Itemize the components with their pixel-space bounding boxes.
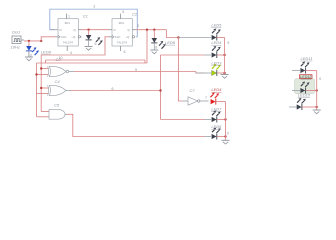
wire feeder vertical A — [40, 55, 42, 112]
wire LED2 to ground — [88, 40, 90, 47]
svg-text:6: 6 — [112, 87, 114, 91]
svg-text:0: 0 — [319, 77, 321, 81]
wire LED4 row2 feed — [161, 54, 205, 56]
gate C3 XNOR — [48, 66, 74, 76]
wire jog up to FF1 CLK — [41, 37, 55, 41]
ground under LED2 — [85, 47, 93, 51]
wire LED7 out — [217, 119, 226, 121]
wire C5 output to LED6 row — [67, 114, 205, 136]
svg-text:6: 6 — [124, 50, 126, 54]
wire LED4 row2 out — [217, 54, 225, 56]
wire net 10 horizontal — [46, 59, 146, 61]
wire C3 input top — [41, 68, 48, 70]
ground rail0 — [222, 140, 230, 144]
wire LED7 feed — [161, 119, 205, 121]
flip-flop C2 — [109, 14, 136, 51]
svg-text:~Q: ~Q — [71, 35, 76, 39]
LED LED11 (floating top) — [292, 62, 310, 74]
wire LED5 stub — [178, 37, 211, 39]
node dot rail0 LED6 — [224, 135, 226, 137]
LED LED12 (floating selected) — [292, 82, 310, 94]
wire LED3 grey stub — [196, 72, 211, 74]
svg-text:LED9: LED9 — [41, 49, 52, 54]
ground floating rail — [313, 110, 321, 114]
wire C3 input bottom — [37, 74, 49, 76]
inverter C7 — [188, 97, 209, 105]
LED LED2 (grey, under Q1) — [86, 35, 103, 45]
svg-text:C4: C4 — [55, 79, 61, 84]
wire LED10 out — [302, 106, 317, 108]
LED LED9 (blue) — [26, 46, 39, 55]
wire blue feedback ~Q2 to D1 — [50, 9, 138, 37]
svg-text:4: 4 — [70, 51, 72, 55]
LED LED7 — [212, 111, 221, 123]
svg-text:CLK: CLK — [61, 35, 67, 39]
wire feeder vertical B — [36, 63, 38, 117]
svg-text:3: 3 — [93, 5, 95, 9]
wire LED6 out — [217, 136, 226, 138]
wire Q2 corner to LED5 row — [166, 30, 178, 38]
svg-text:2: 2 — [137, 24, 139, 28]
ground rail9 — [221, 75, 229, 79]
svg-text:3D1: 3D1 — [65, 21, 71, 25]
node dot rail9 row3 — [223, 72, 225, 74]
ground under LED8 — [150, 50, 158, 54]
LED LED4 (red lit) — [210, 93, 219, 105]
svg-text:LED7: LED7 — [211, 107, 222, 112]
wire LED7 grey stub — [205, 119, 212, 121]
svg-text:9: 9 — [227, 41, 229, 45]
svg-text:C7: C7 — [190, 88, 196, 93]
flip-flop C1 — [58, 14, 82, 51]
gate C5 AND — [49, 109, 67, 119]
wire Q1 LED drop — [88, 30, 90, 35]
svg-text:5: 5 — [135, 68, 137, 72]
node junction Q1 — [87, 29, 89, 31]
ground under LED9 — [25, 57, 33, 61]
node dot rail9 row2 — [223, 54, 225, 56]
svg-text:DG1: DG1 — [12, 30, 20, 35]
wire C3 output net 5 — [74, 72, 205, 74]
svg-text:3D2: 3D2 — [119, 21, 125, 25]
svg-text:7: 7 — [205, 96, 207, 100]
svg-text:LED12: LED12 — [300, 75, 311, 79]
clock source DG1 — [12, 36, 24, 44]
node dot LED12 rail — [316, 89, 318, 91]
wire horizontal y63 — [37, 62, 148, 64]
node junction dot feeder tap — [40, 40, 42, 42]
wire floating rail — [316, 71, 318, 111]
wire FF2 CLK feed — [41, 37, 109, 55]
node dot C4 top — [40, 87, 42, 89]
LED LED5 — [212, 29, 221, 41]
wire C4 input bottom — [37, 93, 49, 95]
svg-text:LED8: LED8 — [165, 40, 176, 45]
LED LED4 row2 — [212, 46, 221, 58]
svg-text:C1: C1 — [83, 14, 88, 19]
svg-text:0: 0 — [227, 131, 229, 135]
svg-text:LED5: LED5 — [211, 23, 222, 28]
svg-text:LED4: LED4 — [211, 40, 222, 45]
node dot Q2 a — [146, 29, 148, 31]
wire LED8 drop — [153, 30, 155, 38]
wire Q1 to D2 — [82, 29, 110, 31]
svg-text:74LS74: 74LS74 — [63, 41, 74, 45]
svg-text:~Q: ~Q — [125, 35, 130, 39]
svg-text:CLK: CLK — [115, 35, 121, 39]
node dot Q2 b — [153, 29, 155, 31]
label LED12 selected box — [300, 75, 313, 79]
svg-text:C5: C5 — [54, 103, 60, 108]
wire LED9 to ground — [28, 51, 30, 57]
wire LED3 out — [217, 72, 225, 74]
wire cathode rail net 0 — [225, 102, 227, 141]
wire C4 input top — [41, 87, 48, 89]
wire clock horizontal — [24, 40, 41, 42]
wire staircase joins — [46, 60, 146, 63]
svg-text:LED10: LED10 — [298, 92, 311, 97]
wire LED12 out — [306, 90, 317, 92]
svg-text:LED11: LED11 — [301, 56, 313, 61]
wire C4 output net 6 — [71, 90, 161, 92]
svg-text:6: 6 — [95, 42, 97, 46]
LED LED8 (grey, under Q2) — [151, 38, 166, 49]
wire Q2 drop to y63 — [146, 30, 148, 63]
node dot C3 top — [40, 67, 42, 69]
svg-text:LED4: LED4 — [211, 87, 222, 92]
svg-text:1: 1 — [68, 15, 70, 19]
wire C5 input bottom — [37, 116, 50, 118]
wire LED4 row2 grey stub — [205, 54, 212, 56]
wire inverter feed vertical — [178, 38, 182, 102]
wire LED4 out — [216, 101, 226, 103]
svg-text:5: 5 — [122, 10, 124, 14]
node dot C4 join — [159, 89, 161, 91]
wire LED11 out — [306, 70, 317, 72]
svg-text:C3: C3 — [56, 57, 62, 62]
wire C5 input top — [41, 111, 49, 113]
wire LED8 to ground — [153, 43, 155, 50]
node dot rail0 LED7 — [224, 118, 226, 120]
wire LED9 drop — [28, 41, 30, 46]
svg-text:10Hz: 10Hz — [11, 45, 20, 50]
node junction dot LED9 tap — [28, 40, 30, 42]
svg-text:LED3: LED3 — [211, 61, 222, 66]
LED LED6 — [212, 128, 221, 140]
svg-text:8: 8 — [155, 45, 157, 49]
LED LED3 (yellow lit) — [212, 64, 221, 76]
green selection panel — [295, 79, 315, 94]
wire cathode rail net 9 — [224, 38, 226, 75]
node dot LED5 feed — [177, 36, 179, 38]
gate C4 XOR — [48, 85, 71, 95]
wire C4 vertical to LED7 — [160, 55, 162, 120]
wire LED6 grey stub — [205, 136, 212, 138]
wire Q2 row — [136, 29, 167, 31]
wire LED5 out — [217, 37, 225, 39]
svg-text:74LS74: 74LS74 — [117, 41, 128, 45]
wire D1 grey stub — [50, 29, 58, 31]
svg-text:LED6: LED6 — [211, 124, 222, 129]
LED LED10 (floating bottom) — [289, 98, 306, 110]
wire FF1 CLK stub — [55, 36, 58, 38]
node dot C3 bottom — [35, 73, 37, 75]
node dot LED10 rail — [316, 106, 318, 108]
